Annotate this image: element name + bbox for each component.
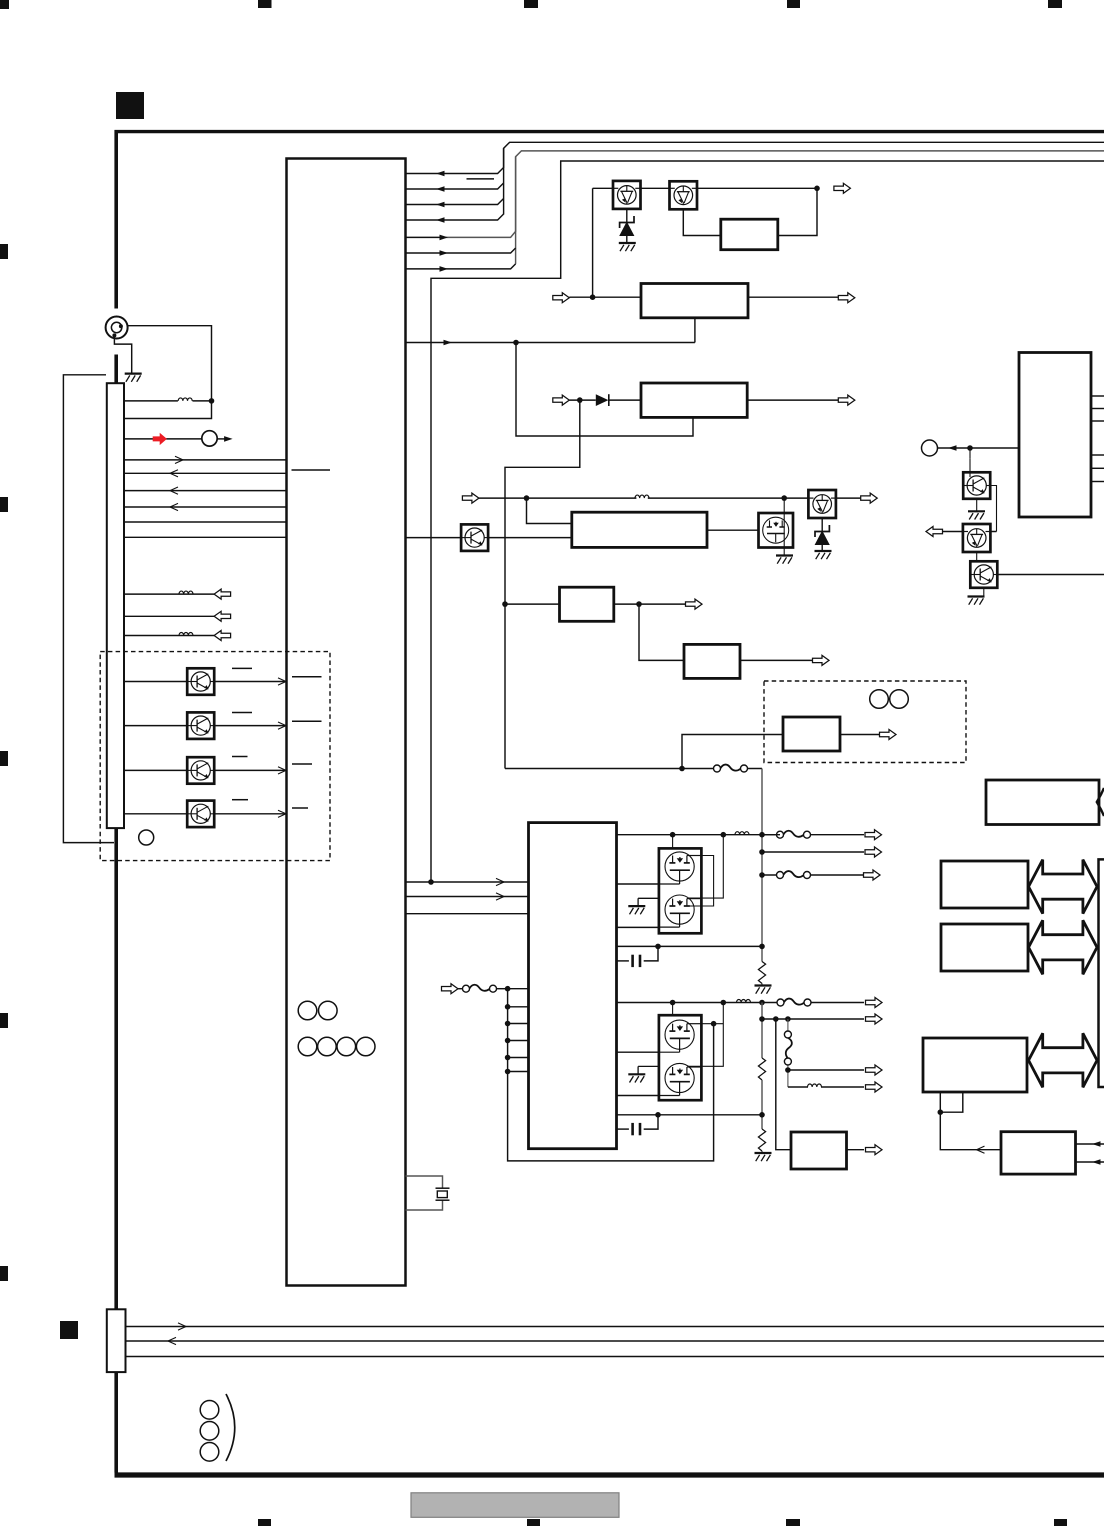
wire: Q6 to Q7 — [976, 552, 978, 561]
wire: supply line y342 — [406, 342, 695, 344]
module BE — [1001, 1132, 1076, 1174]
wire: branch to BoxF — [776, 1019, 791, 1150]
junction — [428, 879, 434, 885]
indicator circle — [139, 830, 154, 845]
bus arrow — [1029, 860, 1098, 914]
junction — [590, 294, 596, 300]
wire: coil line — [124, 400, 178, 402]
wire: M3 line to loop — [702, 1023, 724, 1025]
arrowhead — [278, 767, 286, 774]
wire: bus line 2 (gray) — [442, 151, 1104, 238]
wire: bottom bus lines — [126, 1326, 1104, 1328]
junction — [785, 1016, 791, 1022]
wire: BD bottom pins — [939, 1092, 941, 1112]
output arrow — [866, 998, 883, 1008]
output arrow — [866, 1065, 883, 1075]
wire: U1 to Q4 to B4 — [406, 537, 572, 539]
wire: bus line 3 — [431, 161, 1104, 882]
output arrow — [861, 493, 878, 503]
arrowhead — [1092, 1141, 1101, 1147]
arrow out — [214, 631, 231, 641]
IC option circles — [298, 1001, 317, 1020]
wire: CN1-U1 bus — [124, 459, 287, 461]
module BA — [986, 780, 1099, 825]
output arrow B7 — [880, 730, 897, 740]
output arrow B3 — [838, 395, 855, 405]
input arrow B3 — [553, 395, 570, 405]
MOSFET M4 — [659, 1063, 701, 1095]
ground — [968, 597, 985, 605]
label dash — [232, 756, 248, 758]
transistor Tx4 — [187, 801, 214, 828]
arrowhead — [436, 171, 445, 177]
label dash — [232, 712, 252, 714]
arrowhead — [178, 1323, 186, 1330]
wire: Q6 output left arrow — [939, 531, 997, 533]
junction — [759, 1000, 765, 1006]
wire — [672, 1003, 674, 1025]
inductor L6 — [737, 1000, 751, 1003]
output arrow — [866, 1014, 883, 1024]
wire: outer staple 2 — [688, 1003, 723, 1067]
wire: B4 to M0 — [707, 529, 759, 531]
output arrow — [834, 183, 851, 193]
wire: bus branch — [406, 236, 442, 238]
arrow out — [926, 527, 943, 537]
wire: Tx input — [124, 813, 187, 815]
ground — [755, 986, 772, 994]
zener diode D1 — [626, 209, 628, 222]
wire: output line — [124, 615, 214, 617]
transistor Q6 — [963, 524, 991, 552]
arrowhead — [948, 445, 957, 451]
wire: output line with L3 — [124, 635, 214, 637]
schematic frame border — [115, 130, 1104, 1478]
wire: jack to coil node — [124, 326, 212, 419]
wire: Tx output — [214, 681, 287, 683]
MOSFET pair box PM1 — [659, 848, 702, 933]
module BD — [923, 1038, 1027, 1092]
jumper F3 — [777, 871, 811, 878]
label dash — [292, 807, 308, 809]
output arrow — [865, 847, 882, 857]
junction — [759, 944, 765, 950]
wire: rail output y834.7 — [762, 834, 780, 836]
label dash — [292, 676, 322, 678]
ground — [628, 906, 645, 914]
zener diode D3 — [821, 518, 823, 531]
transistor Q5 — [963, 472, 990, 499]
resistor R4 — [758, 1129, 765, 1151]
junction — [524, 495, 530, 501]
wire: TB right stubs — [1091, 395, 1104, 397]
ground — [619, 243, 636, 251]
module BC — [941, 924, 1028, 971]
transistor Tx2 — [187, 712, 214, 739]
wire: BE right lines — [1076, 1143, 1104, 1145]
arrowhead — [278, 678, 286, 685]
wire: loop to B4 input — [527, 498, 572, 523]
wire — [609, 399, 641, 401]
wire: rail output y875 — [762, 874, 780, 876]
MOSFET M2 — [659, 895, 701, 927]
wire: bus branch — [406, 183, 504, 189]
label dash — [467, 178, 495, 180]
capacitor C2 — [617, 1128, 629, 1130]
wire: y768.5 feed — [505, 768, 717, 770]
junction — [655, 944, 661, 950]
wire: bus riser — [515, 157, 517, 264]
output arrow — [864, 870, 881, 880]
wire: DRV to M1 supply — [617, 834, 781, 836]
wire: DB2 box input — [682, 735, 783, 769]
arrowhead — [168, 1337, 176, 1344]
wire Q1-Q2 — [641, 187, 670, 189]
ground — [968, 511, 985, 519]
input arrow — [442, 984, 459, 994]
junction — [773, 1016, 779, 1022]
wire: B2 input — [569, 296, 641, 298]
resistor R2 — [758, 962, 765, 984]
module B2 — [641, 284, 748, 318]
wire: to B6 — [639, 604, 684, 660]
MOSFET pair box PM2 — [659, 1015, 702, 1100]
label dash — [292, 720, 322, 722]
arrowhead — [440, 266, 449, 272]
output arrow — [865, 830, 882, 840]
junction — [670, 1000, 676, 1006]
wire: M0 drain to ground — [783, 498, 785, 554]
junction — [785, 1067, 791, 1073]
bus arrow — [1029, 920, 1098, 974]
ground — [755, 1153, 772, 1161]
arrow out — [214, 589, 231, 599]
wire: from D2 anode down-loop — [505, 400, 580, 768]
wire: y1087 output with L7 — [788, 1086, 808, 1088]
wire: U1-DRV control lines — [406, 881, 529, 883]
label dash — [292, 763, 312, 765]
junction — [721, 1000, 727, 1006]
output arrow B2 — [838, 293, 855, 303]
module B5 — [560, 587, 614, 621]
module B7 — [783, 717, 840, 751]
wire: y1019 line — [762, 1018, 864, 1020]
arrowhead — [436, 202, 445, 208]
wire: bus line 1 (top) — [436, 142, 1104, 173]
wire: bus branch — [406, 248, 516, 253]
arrowhead — [278, 810, 286, 817]
inductor L3 — [179, 633, 193, 636]
wire — [569, 399, 596, 401]
bus arrow — [1029, 1033, 1098, 1087]
arrowhead — [440, 235, 449, 241]
junction — [938, 1109, 944, 1115]
connector CN2 — [107, 1309, 126, 1372]
wire: B3 output — [747, 399, 840, 401]
inductor L1 — [178, 398, 192, 401]
wire: chassis loop — [63, 375, 114, 843]
junction — [636, 601, 642, 607]
label dash — [292, 469, 331, 471]
red signal arrow — [124, 438, 202, 440]
wire: B5 input — [505, 603, 560, 605]
RCA jack J1 — [106, 317, 128, 339]
arrow out — [214, 611, 231, 621]
wire: y1070 output — [788, 1069, 864, 1071]
wire: Tx output — [214, 813, 287, 815]
module B4 — [572, 512, 707, 547]
transistor Q7 — [970, 561, 997, 588]
wire: bus branch — [406, 199, 504, 205]
wire: jack shield to ground — [114, 335, 131, 372]
junction — [759, 1112, 765, 1118]
junction — [655, 1112, 661, 1118]
output arrow B6 — [813, 655, 830, 665]
module B8 — [791, 1132, 847, 1169]
arrowhead — [440, 250, 449, 256]
output arrow B5 — [686, 599, 703, 609]
transistor Tx1 — [187, 668, 214, 695]
module B3 — [641, 383, 747, 417]
wire: DRV pin y1114.8 — [617, 1114, 763, 1116]
input arrow B2 — [553, 293, 570, 303]
wire: B1 out — [778, 188, 817, 235]
wire: Tx input — [124, 725, 187, 727]
inductor L5 — [735, 832, 749, 835]
wire: outer staple — [688, 835, 723, 898]
dashed block DB2 — [764, 681, 966, 763]
wire: Q1 base feed — [593, 187, 613, 189]
transistor Q2 — [670, 181, 698, 209]
wire — [672, 835, 674, 856]
wire: bus riser — [503, 148, 505, 214]
diode D2 — [596, 394, 609, 406]
MOSFET M0 — [759, 513, 794, 548]
wire: Tx output — [214, 725, 287, 727]
module B6 — [684, 644, 740, 678]
wire: B6 output — [740, 659, 816, 661]
wire: DRV pin y946.4 — [617, 945, 763, 947]
wire: DRV to M3 supply — [617, 1002, 783, 1004]
wire: B5 output — [614, 603, 690, 605]
label dash — [232, 667, 252, 669]
wire: vertical to B2 input — [592, 188, 594, 297]
resistor R3 — [758, 1058, 765, 1080]
arrowhead — [977, 1146, 985, 1153]
jumper F5 — [777, 999, 811, 1006]
module BB — [941, 861, 1028, 908]
wire: Tx output — [214, 769, 287, 771]
module TB (tuner) — [1019, 353, 1091, 518]
vertical jumper F6 — [787, 1019, 789, 1033]
output arrow B8 — [866, 1145, 883, 1155]
dashed block DB1 — [100, 652, 330, 861]
junction — [577, 397, 583, 403]
crystal X1 — [406, 1176, 443, 1188]
ground — [628, 1074, 645, 1082]
arrowhead — [444, 340, 453, 346]
jumper F1 — [714, 765, 748, 772]
Q7 ground — [983, 588, 985, 596]
inductor L7 — [808, 1084, 822, 1087]
inductor L4 — [635, 495, 649, 498]
junction — [711, 1021, 717, 1027]
wire: loop to B3 bottom — [516, 343, 693, 437]
junction — [759, 832, 765, 838]
junction — [513, 340, 519, 346]
wire: M1 source staple — [688, 856, 714, 907]
bracket — [226, 1394, 235, 1461]
junction — [679, 766, 685, 772]
wire: B2 output — [748, 296, 840, 298]
wire: serial stub lines — [508, 989, 714, 1161]
arrowhead — [1092, 1159, 1101, 1165]
ground — [776, 556, 793, 564]
jumper F4 — [463, 985, 497, 992]
circle — [870, 690, 889, 709]
junction — [670, 832, 676, 838]
ground — [125, 374, 142, 382]
junction — [759, 849, 765, 855]
right edge module (cut) — [1099, 859, 1104, 1087]
jumper F2 — [777, 831, 811, 838]
wire: bus branch — [406, 173, 436, 175]
footer label box — [411, 1493, 619, 1518]
wire: bus branch — [406, 214, 504, 220]
wire: B7 output — [840, 734, 883, 736]
arrowhead — [278, 722, 286, 729]
arrowhead — [436, 186, 445, 192]
input arrow — [462, 493, 479, 503]
module B1 — [721, 219, 778, 250]
transistor Tx3 — [187, 757, 214, 784]
Q5 ground — [976, 499, 978, 511]
main IC U1 — [287, 159, 406, 1286]
driver IC U2 — [529, 823, 617, 1149]
jumper F6 — [784, 1031, 791, 1065]
indicator circles group — [200, 1401, 219, 1420]
wire: TB input — [938, 447, 1020, 449]
capacitor C1 — [617, 960, 629, 962]
wire: rail output y852 — [762, 851, 864, 853]
junction — [502, 601, 508, 607]
arrowhead — [224, 436, 233, 442]
MOSFET M1 — [659, 852, 701, 884]
partial bus arrow at page edge — [1097, 788, 1104, 816]
test point circle — [202, 431, 217, 446]
wire: B8 output — [847, 1149, 865, 1151]
antenna circle — [922, 440, 938, 456]
wire: DRV gate pins 2 — [617, 1051, 659, 1053]
inductor L2 — [179, 591, 193, 594]
wire: fused branch y1002.5 — [806, 1002, 864, 1004]
transistor Q1 — [613, 181, 641, 209]
circle — [890, 690, 909, 709]
transistor Q3 — [808, 490, 836, 518]
arrowhead — [436, 217, 445, 223]
wire: BD to BE — [940, 1112, 1001, 1150]
ground — [815, 551, 832, 559]
junction — [814, 186, 820, 192]
junction — [721, 832, 727, 838]
wire: Q7 output — [997, 574, 1104, 576]
junction — [759, 1016, 765, 1022]
ground tap 2 — [637, 1066, 639, 1074]
wire: DRV gate pins — [617, 883, 659, 885]
wire: gray rail lower — [761, 1003, 763, 1059]
transistor Q4 — [461, 524, 488, 551]
wire Q2 out — [698, 187, 818, 189]
wire: gray rail upper — [761, 769, 763, 962]
wire: output line with L2 — [124, 593, 214, 595]
junction — [759, 872, 765, 878]
wire: Tx input — [124, 681, 187, 683]
output arrow — [866, 1082, 883, 1092]
junction — [781, 495, 787, 501]
wire: B2 bottom pin — [694, 318, 696, 343]
wire: Q2 emitter to B1 — [683, 210, 721, 236]
wire: Q5 out loop — [990, 486, 996, 532]
connector CN1 — [107, 383, 124, 828]
junction — [209, 398, 215, 404]
wire: to Q5 — [969, 448, 971, 458]
label dash — [232, 799, 248, 801]
ground tap — [637, 898, 639, 906]
junction — [967, 445, 973, 451]
wire: bus branch — [406, 264, 516, 269]
MOSFET M3 — [659, 1020, 701, 1052]
wire: Tx input — [124, 769, 187, 771]
